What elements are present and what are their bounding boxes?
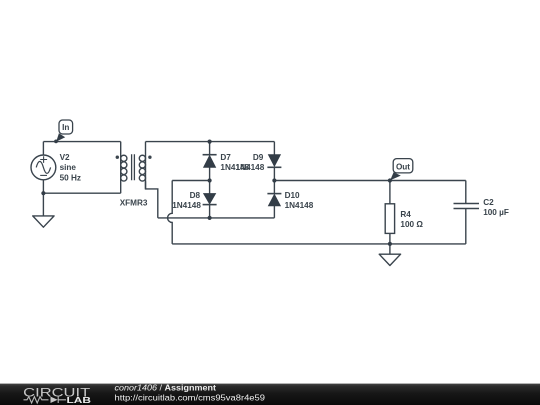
svg-text:D9: D9 — [253, 153, 264, 162]
wire C2 branch bottom — [465, 209, 467, 244]
wire bottom rail — [172, 243, 466, 245]
svg-text:1N4148: 1N4148 — [285, 201, 314, 210]
wire secondary bottom staircase to AC rail — [146, 181, 158, 218]
wire R4 branch bottom — [389, 233, 391, 244]
svg-text:http://circuitlab.com/cms95va8: http://circuitlab.com/cms95va8r4e59 — [115, 393, 266, 403]
D8 labels — [172, 191, 201, 210]
svg-text:100 Ω: 100 Ω — [400, 220, 423, 229]
wire bottom left (primary bottom to V2) — [43, 192, 120, 194]
wire ground left stem — [42, 193, 44, 216]
svg-text:100 µF: 100 µF — [483, 208, 509, 217]
node mid-right (D9/D10) — [272, 178, 276, 182]
svg-text:D8: D8 — [190, 191, 201, 200]
svg-text:D7: D7 — [220, 153, 231, 162]
D7 labels — [220, 153, 249, 172]
svg-text:sine: sine — [60, 163, 77, 172]
transformer XFMR3 — [116, 142, 152, 194]
node D8 bottom on AC rail — [208, 216, 212, 220]
logo diode triangle — [51, 397, 58, 403]
node V2 bottom junction — [41, 191, 45, 195]
node Out (R4 top) — [388, 178, 392, 182]
diode D10 — [267, 194, 281, 206]
footer bar — [0, 384, 540, 405]
wire D10 branch — [273, 181, 275, 218]
svg-text:In: In — [62, 123, 69, 132]
node mid-left (D7/D8) — [208, 178, 212, 182]
wire C2 branch top — [465, 181, 467, 204]
svg-text:R4: R4 — [400, 210, 411, 219]
logo resistor-diode squiggle — [24, 397, 67, 404]
wire V2 top stem — [42, 142, 44, 155]
V2 value labels — [60, 153, 81, 182]
svg-text:LAB: LAB — [67, 395, 92, 405]
D9 labels — [236, 153, 265, 172]
C2 labels — [483, 198, 509, 217]
wire left vertical with hop over AC rail — [168, 181, 173, 244]
ground (right, under R4) — [379, 254, 400, 265]
svg-text:C2: C2 — [483, 198, 494, 207]
voltage source V2 — [31, 155, 56, 180]
wire D7 branch — [209, 142, 211, 181]
svg-text:D10: D10 — [285, 191, 300, 200]
R4 labels — [400, 210, 423, 229]
wire ground right stem — [389, 244, 391, 254]
node R4 bottom / ground — [388, 242, 392, 246]
svg-text:Out: Out — [396, 162, 410, 171]
wire D9 branch — [273, 142, 275, 181]
wire top rail left (V2 to transformer primary) — [43, 141, 120, 143]
D10 labels — [285, 191, 314, 210]
wire V2 bottom stem — [42, 180, 44, 193]
wire D8 branch — [209, 181, 211, 218]
svg-text:50 Hz: 50 Hz — [60, 173, 81, 182]
wire top rail right (secondary to D9) — [146, 141, 275, 143]
diode D9 — [267, 155, 281, 168]
flag Out — [390, 159, 413, 181]
diode D7 — [203, 155, 217, 168]
wire out rail — [274, 180, 465, 182]
svg-text:conor1406 / Assignment: conor1406 / Assignment — [115, 382, 217, 392]
svg-text:XFMR3: XFMR3 — [120, 198, 148, 207]
wire AC bottom rail — [158, 217, 275, 219]
capacitor C2 — [454, 204, 480, 209]
svg-text:1N4148: 1N4148 — [172, 201, 201, 210]
svg-text:1N4148: 1N4148 — [236, 163, 265, 172]
resistor R4 — [385, 204, 394, 234]
diode D8 — [203, 194, 217, 205]
node top rail / D7 junction — [208, 140, 212, 144]
flag In — [54, 120, 73, 143]
ground (left, under V2) — [33, 216, 54, 227]
wire mid-left link — [172, 180, 209, 182]
svg-text:V2: V2 — [60, 153, 70, 162]
wire R4 branch top — [389, 181, 391, 204]
